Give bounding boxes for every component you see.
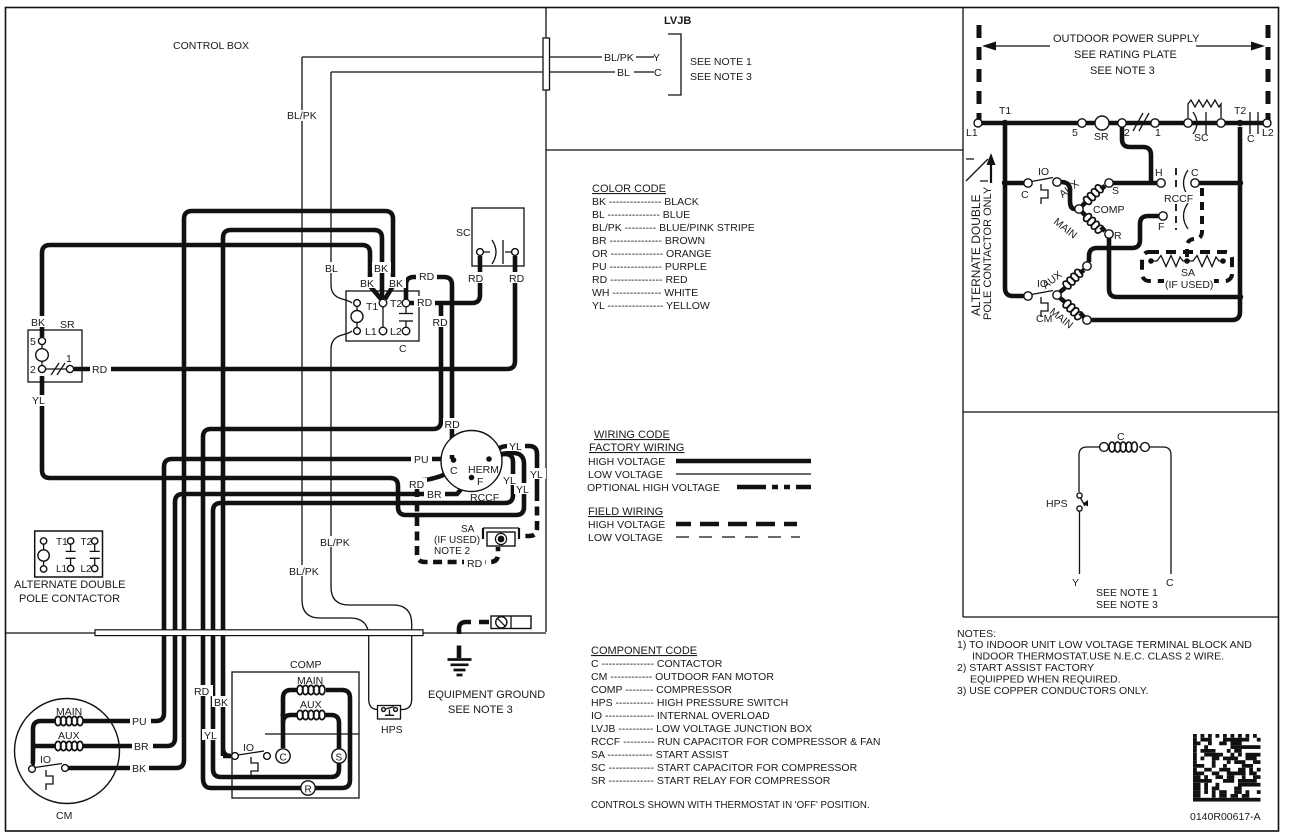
svg-text:SR ------------- START RELAY F: SR ------------- START RELAY FOR COMPRES… bbox=[591, 775, 831, 787]
svg-text:BK --------------- BLACK: BK --------------- BLACK bbox=[592, 196, 699, 208]
svg-text:R: R bbox=[1114, 230, 1122, 242]
svg-text:RD: RD bbox=[92, 364, 108, 376]
svg-text:BK: BK bbox=[31, 317, 45, 329]
svg-text:YL: YL bbox=[509, 441, 522, 453]
svg-text:OUTDOOR POWER SUPPLY: OUTDOOR POWER SUPPLY bbox=[1053, 33, 1200, 45]
svg-text:IO: IO bbox=[243, 742, 254, 754]
svg-text:CONTROLS SHOWN WITH THERMOSTAT: CONTROLS SHOWN WITH THERMOSTAT IN 'OFF' … bbox=[591, 800, 870, 811]
svg-text:CONTROL BOX: CONTROL BOX bbox=[173, 40, 249, 52]
svg-text:HIGH VOLTAGE: HIGH VOLTAGE bbox=[588, 519, 665, 531]
svg-text:SEE NOTE 1: SEE NOTE 1 bbox=[690, 56, 752, 68]
svg-text:RD: RD bbox=[194, 686, 210, 698]
svg-text:YL ---------------- YELLOW: YL ---------------- YELLOW bbox=[592, 300, 710, 312]
svg-text:PU: PU bbox=[414, 454, 429, 466]
svg-text:COMP -------- COMPRESSOR: COMP -------- COMPRESSOR bbox=[591, 684, 732, 696]
svg-text:L1: L1 bbox=[56, 564, 68, 575]
svg-text:R: R bbox=[305, 785, 312, 796]
svg-text:COLOR CODE: COLOR CODE bbox=[592, 183, 666, 195]
svg-text:POLE CONTACTOR: POLE CONTACTOR bbox=[19, 593, 120, 605]
svg-text:1: 1 bbox=[1155, 127, 1161, 139]
svg-text:RD: RD bbox=[433, 317, 449, 329]
svg-text:SEE NOTE 3: SEE NOTE 3 bbox=[1090, 65, 1155, 77]
svg-text:5: 5 bbox=[1072, 127, 1078, 139]
svg-text:T1: T1 bbox=[999, 105, 1011, 117]
svg-text:EQUIPMENT GROUND: EQUIPMENT GROUND bbox=[428, 689, 545, 701]
svg-text:BR: BR bbox=[427, 489, 442, 501]
svg-text:PU: PU bbox=[132, 716, 147, 728]
svg-text:L2: L2 bbox=[81, 564, 93, 575]
svg-text:T1: T1 bbox=[366, 301, 378, 313]
svg-text:1: 1 bbox=[66, 353, 72, 365]
svg-text:T1: T1 bbox=[56, 537, 68, 548]
svg-text:FACTORY WIRING: FACTORY WIRING bbox=[589, 442, 684, 454]
svg-text:IO: IO bbox=[40, 754, 51, 766]
svg-text:C: C bbox=[450, 465, 458, 477]
svg-text:ALTERNATE DOUBLE: ALTERNATE DOUBLE bbox=[969, 194, 983, 316]
svg-text:T2: T2 bbox=[81, 537, 93, 548]
svg-text:HPS: HPS bbox=[1046, 498, 1068, 510]
svg-text:S: S bbox=[1112, 185, 1119, 197]
svg-text:C --------------- CONTACTOR: C --------------- CONTACTOR bbox=[591, 658, 723, 670]
svg-text:BK: BK bbox=[214, 697, 228, 709]
svg-text:LOW VOLTAGE: LOW VOLTAGE bbox=[588, 469, 663, 481]
svg-text:EQUIPPED WHEN REQUIRED.: EQUIPPED WHEN REQUIRED. bbox=[970, 674, 1121, 686]
svg-text:INDOOR THERMOSTAT.USE N.E.C. C: INDOOR THERMOSTAT.USE N.E.C. CLASS 2 WIR… bbox=[972, 651, 1224, 663]
svg-text:5: 5 bbox=[30, 336, 36, 348]
svg-text:RCCF --------- RUN CAPACITOR F: RCCF --------- RUN CAPACITOR FOR COMPRES… bbox=[591, 736, 881, 748]
svg-text:C: C bbox=[1117, 431, 1125, 443]
svg-text:COMP: COMP bbox=[290, 659, 322, 671]
svg-text:HIGH VOLTAGE: HIGH VOLTAGE bbox=[588, 456, 665, 468]
svg-text:FIELD WIRING: FIELD WIRING bbox=[588, 506, 663, 518]
svg-text:COMP: COMP bbox=[1093, 204, 1125, 216]
svg-text:RD: RD bbox=[417, 297, 433, 309]
svg-text:BL/PK: BL/PK bbox=[320, 537, 350, 549]
svg-text:WIRING CODE: WIRING CODE bbox=[594, 429, 670, 441]
svg-text:PU --------------- PURPLE: PU --------------- PURPLE bbox=[592, 261, 707, 273]
svg-text:IO -------------- INTERNAL OVE: IO -------------- INTERNAL OVERLOAD bbox=[591, 710, 770, 722]
svg-text:C: C bbox=[280, 753, 287, 764]
svg-text:3) USE COPPER CONDUCTORS ONLY: 3) USE COPPER CONDUCTORS ONLY. bbox=[957, 685, 1148, 697]
svg-text:OR --------------- ORANGE: OR --------------- ORANGE bbox=[592, 248, 712, 260]
svg-text:ALTERNATE DOUBLE: ALTERNATE DOUBLE bbox=[14, 579, 125, 591]
svg-text:2: 2 bbox=[30, 364, 36, 376]
svg-text:BL --------------- BLUE: BL --------------- BLUE bbox=[592, 209, 690, 221]
svg-text:S: S bbox=[336, 753, 343, 764]
svg-text:IO: IO bbox=[1038, 166, 1049, 178]
svg-text:C: C bbox=[1247, 133, 1255, 145]
svg-text:RD --------------- RED: RD --------------- RED bbox=[592, 274, 688, 286]
svg-text:SR: SR bbox=[60, 319, 75, 331]
svg-text:BK: BK bbox=[132, 763, 146, 775]
svg-text:RD: RD bbox=[445, 419, 461, 431]
svg-text:SA: SA bbox=[461, 524, 475, 535]
svg-text:WH -------------- WHITE: WH -------------- WHITE bbox=[592, 287, 698, 299]
svg-text:L2: L2 bbox=[1262, 127, 1274, 139]
svg-text:C: C bbox=[399, 343, 407, 355]
svg-text:SC: SC bbox=[1194, 132, 1209, 144]
svg-text:CM ------------ OUTDOOR FAN MO: CM ------------ OUTDOOR FAN MOTOR bbox=[591, 671, 774, 683]
svg-text:YL: YL bbox=[204, 730, 217, 742]
svg-text:SA ------------- START ASSIST: SA ------------- START ASSIST bbox=[591, 749, 729, 761]
svg-text:OPTIONAL HIGH VOLTAGE: OPTIONAL HIGH VOLTAGE bbox=[587, 482, 720, 494]
svg-text:C: C bbox=[1021, 189, 1029, 201]
svg-text:SA: SA bbox=[1181, 267, 1195, 279]
svg-text:L2: L2 bbox=[390, 326, 402, 338]
svg-text:BL/PK --------- BLUE/PINK STRI: BL/PK --------- BLUE/PINK STRIPE bbox=[592, 222, 755, 234]
svg-text:BL/PK: BL/PK bbox=[289, 566, 319, 578]
svg-text:YL: YL bbox=[32, 395, 45, 407]
svg-text:RD: RD bbox=[419, 271, 435, 283]
svg-text:AUX: AUX bbox=[300, 699, 322, 711]
svg-text:1) TO INDOOR UNIT LOW VOLTAGE: 1) TO INDOOR UNIT LOW VOLTAGE TERMINAL B… bbox=[957, 639, 1252, 651]
svg-text:H: H bbox=[1155, 167, 1163, 179]
svg-text:Y: Y bbox=[653, 52, 660, 64]
svg-text:F: F bbox=[477, 476, 483, 488]
svg-text:SR: SR bbox=[1094, 131, 1109, 143]
svg-text:RCCF: RCCF bbox=[470, 492, 499, 504]
svg-text:SEE NOTE 3: SEE NOTE 3 bbox=[690, 71, 752, 83]
svg-text:CM: CM bbox=[56, 810, 72, 822]
svg-text:BR --------------- BROWN: BR --------------- BROWN bbox=[592, 235, 705, 247]
svg-text:AUX: AUX bbox=[58, 730, 80, 742]
svg-text:SEE RATING PLATE: SEE RATING PLATE bbox=[1074, 49, 1177, 61]
svg-text:0140R00617-A: 0140R00617-A bbox=[1190, 811, 1261, 823]
svg-text:RD: RD bbox=[467, 558, 483, 570]
svg-text:SEE NOTE 3: SEE NOTE 3 bbox=[1096, 599, 1158, 611]
svg-text:2: 2 bbox=[1124, 127, 1130, 139]
svg-text:BK: BK bbox=[389, 278, 403, 290]
svg-text:POLE CONTACTOR ONLY: POLE CONTACTOR ONLY bbox=[982, 186, 994, 320]
svg-text:SEE NOTE 1: SEE NOTE 1 bbox=[1096, 587, 1158, 599]
svg-text:YL: YL bbox=[516, 484, 529, 496]
svg-text:L1: L1 bbox=[966, 127, 978, 139]
svg-text:SC ------------- START CAPACIT: SC ------------- START CAPACITOR FOR COM… bbox=[591, 762, 858, 774]
svg-text:(IF USED): (IF USED) bbox=[1165, 279, 1213, 291]
svg-text:BL: BL bbox=[325, 263, 338, 275]
svg-text:BL: BL bbox=[617, 67, 630, 79]
svg-text:(IF USED): (IF USED) bbox=[434, 535, 480, 546]
svg-text:L1: L1 bbox=[365, 326, 377, 338]
svg-text:C: C bbox=[1166, 577, 1174, 589]
svg-text:2) START ASSIST FACTORY: 2) START ASSIST FACTORY bbox=[957, 662, 1094, 674]
svg-text:YL: YL bbox=[503, 475, 516, 487]
svg-text:LVJB ---------- LOW VOLTAGE JU: LVJB ---------- LOW VOLTAGE JUNCTION BOX bbox=[591, 723, 812, 735]
svg-text:BK: BK bbox=[360, 278, 374, 290]
svg-text:RCCF: RCCF bbox=[1164, 193, 1193, 205]
svg-text:T2: T2 bbox=[1234, 105, 1246, 117]
svg-text:HERM: HERM bbox=[468, 464, 499, 476]
svg-text:T2: T2 bbox=[390, 298, 402, 310]
svg-text:BL/PK: BL/PK bbox=[604, 52, 634, 64]
svg-text:BR: BR bbox=[134, 741, 149, 753]
svg-text:COMPONENT CODE: COMPONENT CODE bbox=[591, 645, 697, 657]
svg-text:C: C bbox=[1191, 167, 1199, 179]
svg-text:RD: RD bbox=[468, 273, 484, 285]
svg-text:NOTE 2: NOTE 2 bbox=[434, 546, 471, 557]
svg-text:YL: YL bbox=[530, 469, 543, 481]
svg-text:HPS ----------- HIGH PRESSURE: HPS ----------- HIGH PRESSURE SWITCH bbox=[591, 697, 788, 709]
svg-text:HPS: HPS bbox=[381, 724, 403, 736]
svg-text:RD: RD bbox=[409, 479, 425, 491]
svg-text:C: C bbox=[654, 67, 662, 79]
svg-text:LVJB: LVJB bbox=[664, 15, 691, 27]
svg-text:SC: SC bbox=[456, 227, 471, 239]
svg-text:LOW VOLTAGE: LOW VOLTAGE bbox=[588, 532, 663, 544]
svg-text:F: F bbox=[1158, 221, 1164, 233]
svg-text:BK: BK bbox=[374, 263, 388, 275]
svg-text:SEE NOTE 3: SEE NOTE 3 bbox=[448, 704, 513, 716]
svg-text:BL/PK: BL/PK bbox=[287, 110, 317, 122]
svg-text:Y: Y bbox=[1072, 577, 1079, 589]
svg-text:RD: RD bbox=[509, 273, 525, 285]
